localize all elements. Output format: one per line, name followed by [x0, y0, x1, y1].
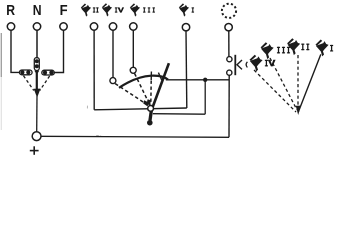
fan label II: [301, 44, 309, 51]
terminal N: [33, 23, 40, 30]
selector arrow under N: [34, 71, 39, 75]
terminal under bolt IV: [109, 23, 116, 30]
fan bolt I: [315, 40, 328, 57]
label III: [143, 7, 155, 12]
wiper feed line: [166, 79, 229, 81]
heater symbol IV: [102, 3, 112, 16]
dashed link left: [24, 76, 34, 91]
position fan: line I (solid): [298, 54, 321, 112]
common terminal: [32, 132, 41, 141]
fan bolt III: [261, 42, 274, 59]
rotary contact a: [110, 78, 116, 84]
lamp (dashed circle): [222, 4, 236, 18]
terminal under bolt III: [130, 23, 137, 30]
fan bolt IV: [249, 55, 262, 72]
fan label III: [277, 47, 290, 54]
tick on arc 2: [158, 73, 161, 80]
contact stadium right: [42, 70, 55, 75]
scan speck on bus: [96, 135, 99, 136]
wire F down: [54, 30, 63, 72]
position fan: line IV (dashed): [254, 70, 296, 112]
position fan: line II (dashed): [297, 55, 299, 109]
svg-text:R: R: [6, 2, 15, 19]
terminal under bolt I: [182, 24, 189, 31]
plus mark: [30, 150, 39, 152]
heater symbol I: [179, 3, 189, 16]
bus line B: [153, 113, 205, 116]
fan label I: [330, 45, 333, 52]
label II: [93, 7, 99, 12]
riser: [204, 80, 206, 114]
label I: [192, 7, 195, 12]
drop from II: [93, 30, 95, 110]
door switch contact lower: [227, 70, 232, 75]
terminal F: [60, 23, 67, 30]
terminal R: [7, 23, 14, 30]
fan label IV: [265, 60, 276, 67]
drop from IV: [112, 30, 114, 77]
contact stadium left: [19, 70, 32, 75]
pivot: [148, 106, 154, 112]
contact stadium center (vertical): [34, 58, 39, 71]
rotary contact b: [130, 67, 136, 73]
door switch actuator bar: [234, 55, 236, 75]
heater symbol II: [81, 3, 91, 16]
terminal under bolt II: [90, 23, 97, 30]
svg-text:N: N: [33, 2, 42, 19]
dashed link right: [40, 76, 50, 91]
dashed radius to contact a: [115, 84, 148, 106]
wire N selector shaft: [36, 73, 38, 91]
wiper end dot: [147, 120, 153, 126]
position fan: line III (dashed): [270, 58, 297, 110]
fan bolt II: [287, 38, 300, 55]
actuator hook: [246, 62, 247, 68]
terminal under lamp: [225, 24, 232, 31]
heater symbol III: [130, 3, 140, 16]
radius arrowheads at pivot: [143, 100, 149, 106]
lamp return: [228, 75, 230, 137]
actuator fork: [237, 60, 242, 69]
wire to common: [36, 96, 38, 132]
svg-text:F: F: [60, 2, 68, 19]
bus line A: [94, 108, 187, 110]
wiper: [152, 63, 169, 110]
wire N down: [36, 30, 38, 58]
convergence wedge: [34, 89, 41, 98]
label IV: [115, 7, 124, 12]
tick on arc 1: [150, 72, 152, 81]
bottom bus: [41, 136, 229, 137]
dashed radius vertical: [150, 81, 152, 105]
fan apex: [296, 106, 301, 115]
scan speck left of line A corner: [86, 106, 89, 109]
dashed radius to contact b: [135, 74, 150, 105]
wire R down: [11, 30, 20, 72]
door switch contact upper: [227, 57, 232, 62]
lamp lead: [228, 31, 230, 57]
sector arc: [119, 76, 168, 88]
left edge scan artifact: [0, 33, 2, 77]
drop from I: [185, 31, 188, 108]
junction dot: [203, 78, 207, 82]
drop from III: [132, 30, 134, 67]
